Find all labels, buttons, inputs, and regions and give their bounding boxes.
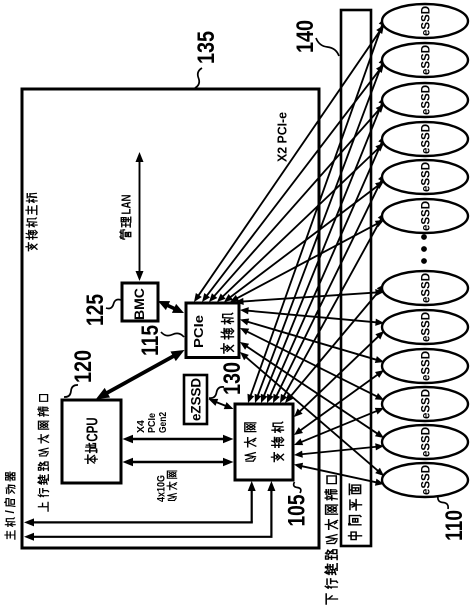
- svg-text:CPU: CPU: [84, 417, 101, 442]
- svg-text:eSSD: eSSD: [421, 312, 433, 342]
- svg-text:eSSD: eSSD: [421, 6, 433, 36]
- svg-text:115: 115: [137, 325, 164, 356]
- svg-text:eSSD: eSSD: [421, 273, 433, 303]
- svg-text:110: 110: [441, 510, 468, 541]
- svg-text:eSSD: eSSD: [421, 427, 433, 457]
- svg-text:X2 PCI-e: X2 PCI-e: [275, 112, 290, 162]
- svg-text:140: 140: [292, 20, 319, 53]
- svg-text:eSSD: eSSD: [421, 45, 433, 75]
- svg-text:eSSD: eSSD: [421, 201, 433, 231]
- svg-text:Gen2: Gen2: [157, 412, 169, 433]
- svg-text:eSSD: eSSD: [421, 351, 433, 381]
- svg-text:120: 120: [70, 350, 97, 383]
- svg-text:eSSD: eSSD: [421, 162, 433, 192]
- svg-text:eSSD: eSSD: [421, 389, 433, 419]
- svg-text:130: 130: [219, 362, 246, 395]
- svg-text:4x10G: 4x10G: [156, 475, 168, 502]
- svg-text:135: 135: [193, 31, 220, 64]
- svg-text:LAN: LAN: [119, 195, 134, 215]
- svg-text:BMC: BMC: [131, 288, 147, 320]
- svg-text:eSSD: eSSD: [421, 465, 433, 495]
- svg-text:105: 105: [284, 495, 311, 527]
- svg-text:125: 125: [82, 294, 109, 326]
- svg-text:eSSD: eSSD: [421, 85, 433, 115]
- svg-text:PCIe: PCIe: [191, 315, 206, 348]
- svg-text:eZSSD: eZSSD: [188, 378, 204, 421]
- svg-text:eSSD: eSSD: [421, 124, 433, 154]
